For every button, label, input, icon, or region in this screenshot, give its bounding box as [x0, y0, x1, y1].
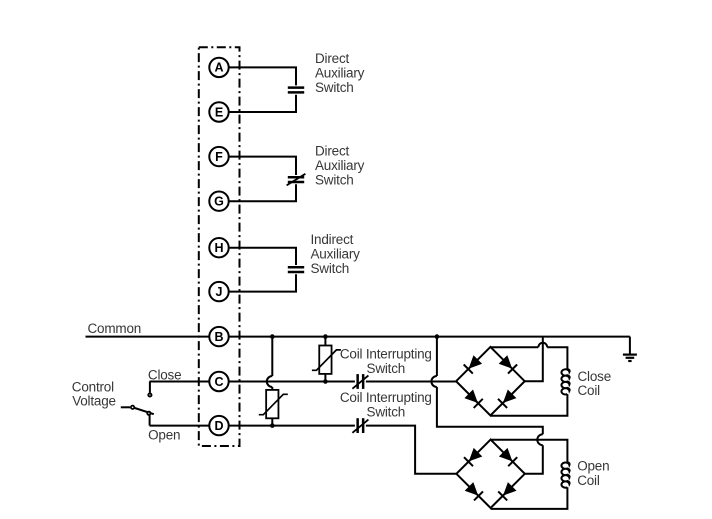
svg-text:B: B	[214, 330, 223, 344]
svg-text:Auxiliary: Auxiliary	[315, 66, 365, 81]
svg-text:Control: Control	[72, 380, 114, 395]
svg-text:Open: Open	[148, 427, 180, 442]
svg-text:J: J	[216, 285, 223, 299]
svg-text:Coil Interrupting: Coil Interrupting	[340, 347, 432, 362]
svg-text:Common: Common	[88, 321, 142, 336]
svg-text:Open: Open	[577, 459, 609, 474]
svg-text:Switch: Switch	[367, 405, 406, 420]
svg-text:Auxiliary: Auxiliary	[315, 158, 365, 173]
svg-text:Auxiliary: Auxiliary	[311, 247, 361, 262]
svg-text:H: H	[214, 241, 223, 255]
svg-text:Coil: Coil	[578, 383, 601, 398]
svg-text:F: F	[215, 150, 223, 164]
svg-text:Direct: Direct	[315, 51, 350, 66]
svg-text:Switch: Switch	[315, 173, 354, 188]
svg-text:Close: Close	[578, 369, 612, 384]
svg-text:Switch: Switch	[311, 261, 350, 276]
svg-text:C: C	[214, 375, 223, 389]
svg-text:D: D	[214, 419, 223, 433]
svg-text:Indirect: Indirect	[311, 232, 354, 247]
svg-text:Coil Interrupting: Coil Interrupting	[340, 390, 432, 405]
svg-text:Direct: Direct	[315, 144, 350, 159]
svg-text:E: E	[215, 105, 223, 119]
svg-text:Switch: Switch	[367, 361, 406, 376]
svg-text:Coil: Coil	[577, 473, 600, 488]
svg-text:A: A	[214, 61, 223, 75]
svg-text:G: G	[214, 195, 224, 209]
svg-text:Voltage: Voltage	[72, 394, 116, 409]
svg-text:Switch: Switch	[315, 80, 354, 95]
svg-text:Close: Close	[148, 367, 182, 382]
